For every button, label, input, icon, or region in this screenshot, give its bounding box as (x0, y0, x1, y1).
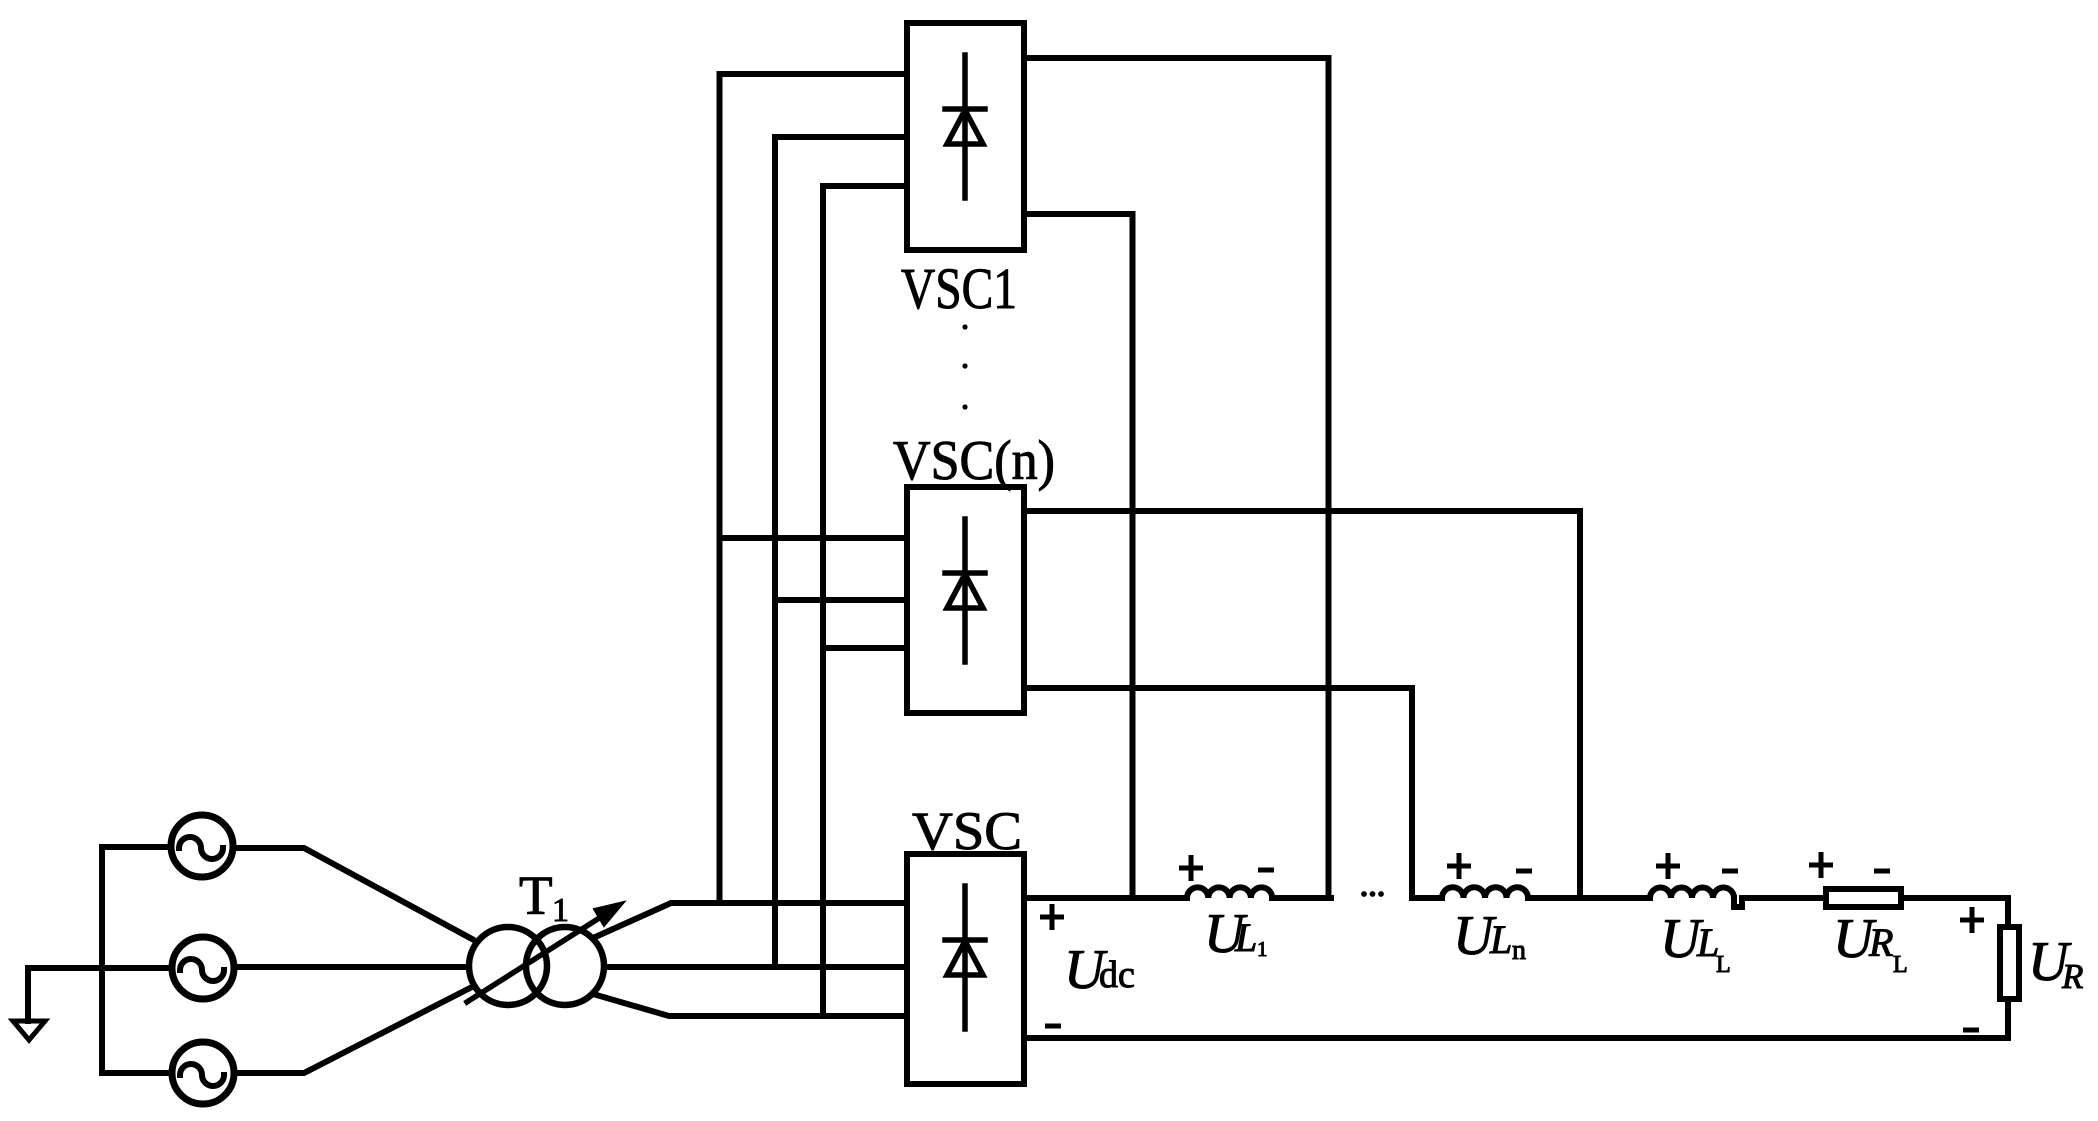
wire: G3 to transformer primary (237, 988, 470, 1073)
wire: DC bus from VSC positive terminal (1024, 895, 1187, 901)
label - for RL (1874, 869, 1890, 874)
label - for Ln (1516, 869, 1532, 874)
svg-text:1: 1 (552, 892, 569, 929)
VSC1 diode (945, 55, 985, 198)
label + for R (1960, 907, 1984, 933)
label + for Ln (1447, 853, 1471, 879)
wire: VSC1 positive output (1024, 58, 1329, 898)
ground (13, 1021, 45, 1040)
label + for Udc (1040, 904, 1064, 930)
svg-text:L: L (1234, 915, 1257, 960)
wire: phase A transformer to VSC (593, 903, 907, 938)
wire: phase B tap into VSC(n) (775, 597, 907, 603)
svg-text:n: n (1512, 935, 1526, 966)
svg-text:VSC(n): VSC(n) (893, 430, 1055, 492)
wire: phase C into VSC1 (823, 183, 907, 189)
label URL (1833, 908, 1908, 978)
svg-text:T: T (519, 865, 553, 926)
wire: bus L1 to VSC1 branch (1272, 895, 1331, 901)
wire: neutral bus joining source left terminals (99, 847, 105, 1073)
VSC(n) box (907, 487, 1024, 713)
wire: VSC(n) positive output (1024, 511, 1580, 898)
wire: RL to load corner (1904, 898, 2008, 924)
transformer T1 secondary winding (526, 927, 604, 1005)
AC source G1 (top) (171, 815, 233, 877)
label + for L1 (1179, 855, 1203, 881)
label - for LL (1722, 869, 1738, 874)
svg-text:1: 1 (1257, 937, 1268, 961)
wire: G2 to transformer primary (238, 964, 466, 970)
wire: LL to RL (1742, 895, 1823, 901)
wire: VSC(n) negative output (1024, 688, 1412, 898)
wire: bus VSC(n) branch to Ln (1412, 895, 1442, 901)
wire: phase B riser (772, 137, 778, 967)
wire: phase A tap into VSC(n) (720, 535, 908, 541)
AC source G2 (middle) (172, 937, 234, 999)
VSC1 box (907, 23, 1024, 250)
wire: VSC1 negative output (1024, 214, 1133, 898)
label + for RL (1809, 852, 1833, 878)
AC source G3 (bottom) (172, 1042, 234, 1104)
transformer T1 primary winding (469, 927, 547, 1005)
label Udc (1064, 939, 1135, 1001)
svg-text:dc: dc (1099, 954, 1135, 996)
wire: phase B into VSC1 (775, 134, 907, 140)
wire: G1 to transformer primary (235, 848, 472, 939)
wire: G3 left terminal (102, 1070, 172, 1076)
label - for R (1963, 1028, 1979, 1033)
svg-text:L: L (1489, 917, 1512, 962)
ellipsis between VSC1 and VSC(n) (962, 324, 967, 409)
svg-text:R: R (2061, 957, 2083, 996)
resistor RL (1826, 889, 1901, 907)
VSC box (907, 854, 1024, 1084)
wire: phase C tap into VSC(n) (823, 645, 907, 651)
svg-text:L: L (1893, 952, 1908, 978)
wire: load bottom leg (2005, 1002, 2011, 1038)
label ULL (1660, 908, 1731, 978)
wire: bus Ln to LL (1528, 895, 1650, 901)
wire: G2 left terminal to ground node (28, 965, 172, 971)
label UL1 (1204, 903, 1268, 965)
wire: DC return bus (1024, 1035, 2008, 1041)
wire: notch after LL (1734, 898, 1742, 907)
svg-text:VSC1: VSC1 (901, 256, 1017, 321)
wire: phase B transformer to VSC (608, 964, 907, 970)
wire: ground stub (25, 968, 31, 1021)
wire: phase C transformer to VSC (593, 994, 907, 1016)
label UR (2028, 931, 2083, 996)
wire: phase C riser (820, 186, 826, 1016)
inductor Ln (1442, 887, 1528, 898)
label - for L1 (1258, 868, 1274, 873)
inductor L1 (1187, 887, 1272, 898)
label + for LL (1656, 853, 1680, 879)
label ULn (1453, 905, 1526, 967)
svg-text:R: R (1868, 920, 1893, 965)
inductor LL (1650, 888, 1734, 899)
ellipsis in DC bus (1361, 891, 1384, 897)
transformer T1 adjustment arrow (467, 902, 624, 1002)
label T1 (519, 865, 569, 929)
resistor R (load) (2000, 927, 2019, 999)
wire: phase A into VSC1 (720, 71, 908, 77)
VSC(n) diode (945, 519, 985, 662)
wire: phase A riser (717, 74, 723, 903)
label - for Udc (1045, 1024, 1061, 1029)
wire: G1 left terminal (102, 844, 167, 850)
VSC diode (945, 886, 985, 1029)
svg-text:L: L (1716, 952, 1731, 978)
